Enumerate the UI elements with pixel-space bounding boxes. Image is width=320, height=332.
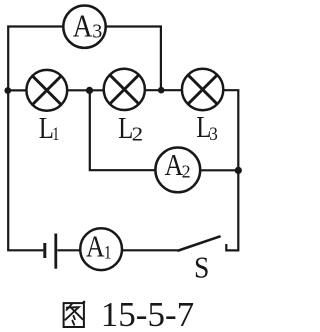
svg-text:3: 3 — [209, 123, 218, 144]
svg-text:A: A — [73, 9, 93, 43]
svg-text:15-5-7: 15-5-7 — [101, 295, 194, 332]
svg-text:A: A — [86, 230, 105, 264]
svg-text:1: 1 — [104, 242, 112, 263]
svg-text:2: 2 — [182, 162, 191, 182]
svg-text:3: 3 — [92, 20, 102, 42]
svg-text:1: 1 — [52, 123, 59, 144]
svg-text:S: S — [194, 251, 209, 285]
svg-text:2: 2 — [132, 123, 144, 145]
